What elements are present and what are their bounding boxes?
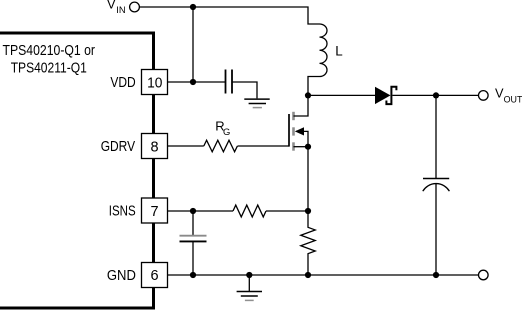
U1 label TPS40210-Q1 or TPS40211-Q1	[3, 43, 96, 76]
Q1 body arrow	[295, 127, 304, 135]
capacitor COUT (polarized)	[423, 95, 450, 275]
D1 schottky cathode bar	[386, 87, 396, 104]
svg-text:IN: IN	[116, 4, 125, 15]
transistor Q1 (N-MOSFET)	[289, 95, 308, 150]
pin GDRV box 8	[101, 134, 168, 159]
svg-text:G: G	[223, 126, 230, 137]
node junction VOUT	[433, 92, 439, 98]
wire VDD pin to capacitor	[168, 81, 226, 83]
wire drain node to diode	[308, 94, 375, 96]
resistor RG	[204, 140, 238, 152]
node junction rail C-ISNS	[190, 272, 196, 278]
wire ISNS pin to resistor	[168, 210, 234, 212]
node return terminal	[479, 270, 489, 280]
svg-text:ISNS: ISNS	[109, 203, 136, 219]
node junction drain/inductor/diode	[305, 92, 311, 98]
resistor R-sense (vertical)	[301, 211, 315, 275]
resistor R-ISNS	[233, 205, 266, 217]
wire diode to VOUT	[392, 94, 478, 96]
ground (VDD bypass)	[244, 99, 269, 108]
svg-text:TPS40210-Q1 or: TPS40210-Q1 or	[3, 43, 96, 59]
pin GND box 6	[107, 263, 168, 288]
wire RG to gate	[238, 145, 290, 147]
wire GDRV to RG	[168, 145, 204, 147]
node VIN terminal	[107, 0, 139, 15]
svg-text:L: L	[335, 43, 342, 58]
RG label	[215, 119, 230, 137]
pin ISNS box 7	[109, 198, 168, 223]
wire VIN to inductor top	[139, 7, 319, 24]
node junction sense	[305, 208, 311, 214]
svg-text:TPS40211-Q1: TPS40211-Q1	[11, 61, 87, 77]
svg-text:6: 6	[150, 268, 158, 284]
node junction rail R-sense	[305, 272, 311, 278]
node VOUT terminal	[479, 85, 522, 104]
svg-text:GDRV: GDRV	[101, 139, 136, 155]
svg-text:OUT: OUT	[504, 93, 522, 104]
wire VIN down to VDD	[192, 7, 194, 82]
svg-text:8: 8	[150, 139, 158, 155]
svg-text:10: 10	[147, 75, 162, 91]
wire bottom rail	[168, 274, 479, 276]
wire C1 to ground	[232, 82, 257, 98]
node junction VIN column	[190, 4, 196, 10]
node junction Q1 source	[305, 144, 311, 150]
capacitor C-ISNS	[180, 211, 207, 275]
capacitor C1 (VDD bypass)	[226, 70, 233, 94]
diode D1 (Schottky)	[375, 87, 391, 104]
node junction ISNS cap	[190, 208, 196, 214]
node junction rail COUT	[433, 272, 439, 278]
ground (system)	[237, 275, 262, 300]
svg-text:GND: GND	[107, 268, 136, 284]
wire resistor to sense node	[266, 210, 308, 212]
node junction rail ground	[246, 272, 252, 278]
wire source down to ISNS node	[307, 147, 309, 211]
IC U1 (TPS40210-Q1 controller outline)	[0, 33, 154, 308]
inductor L	[308, 24, 327, 95]
node junction VDD	[190, 79, 196, 85]
svg-text:7: 7	[150, 204, 158, 220]
svg-text:VDD: VDD	[110, 75, 135, 91]
pin VDD box 10	[110, 70, 167, 95]
svg-text:V: V	[107, 0, 116, 11]
